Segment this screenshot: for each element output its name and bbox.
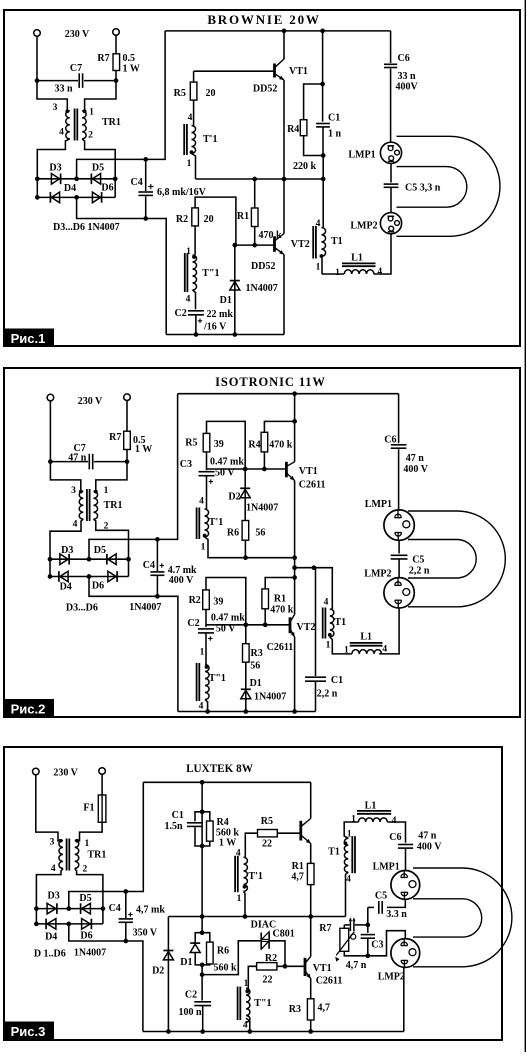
svg-text:R7: R7 — [319, 923, 331, 934]
wire T1 pin 1 to L1 schematic 3 — [344, 822, 358, 838]
svg-text:C2611: C2611 — [299, 480, 326, 491]
svg-text:220 k: 220 k — [293, 161, 317, 172]
junction nodes of bridge schematic 2 — [48, 557, 53, 562]
wire T1 pin 4 lead schematic 3 — [346, 872, 349, 874]
svg-text:4: 4 — [51, 864, 56, 874]
figure label Рис.2 — [3, 699, 54, 718]
svg-text:TR1: TR1 — [88, 850, 107, 861]
svg-text:1 n: 1 n — [328, 129, 342, 140]
lamp LMP1 schematic 2 — [384, 510, 414, 540]
svg-text:R4: R4 — [248, 439, 260, 450]
svg-text:D3...D6 1N4007: D3...D6 1N4007 — [53, 222, 120, 233]
wire R2 left to T''1 schematic 3 — [248, 966, 256, 988]
wire R5 bottom to C3 schematic 2 — [206, 452, 208, 470]
wire VT2 emitter down — [283, 255, 285, 335]
terminal right schematic 3 — [99, 768, 106, 775]
capacitor C3 schematic 3 — [367, 925, 369, 933]
wire horizontal with C7 — [37, 80, 78, 82]
svg-text:1N4007: 1N4007 — [246, 283, 278, 294]
lamp LMP2 schematic 3 — [391, 939, 420, 968]
capacitor C3 schematic 2 — [199, 471, 215, 473]
svg-text:C2611: C2611 — [267, 642, 294, 653]
wire bridge minus bus schematic 2 — [89, 577, 178, 712]
wire LMP2 to L1 — [374, 234, 391, 274]
wire to TR1 pin 1 — [85, 81, 116, 112]
wire TR1 pin 2 to bridge — [82, 139, 115, 179]
svg-text:D4: D4 — [60, 582, 72, 593]
diode D2 schematic 3 — [167, 917, 169, 1032]
wire branch to R4 schematic 2 — [264, 421, 294, 432]
wire bridge plus to rail riser — [77, 31, 166, 179]
svg-text:L1: L1 — [365, 801, 377, 812]
svg-text:D3: D3 — [47, 891, 59, 902]
capacitor C4 — [145, 159, 147, 191]
svg-text:2: 2 — [83, 865, 88, 875]
wire emitter to R1 schematic 3 — [310, 844, 312, 864]
figure label Рис.1 — [3, 329, 54, 348]
variable resistor R7 schematic 3 — [340, 928, 349, 951]
svg-text:0.47 mk: 0.47 mk — [211, 613, 245, 624]
transistor VT2 — [273, 236, 276, 252]
svg-text:T1: T1 — [331, 236, 343, 247]
transistor VT1 — [273, 64, 276, 78]
svg-text:VT1: VT1 — [289, 66, 308, 77]
svg-text:C6: C6 — [389, 832, 401, 843]
junction nodes of bridge schematic 3 — [34, 906, 39, 911]
wire right terminal to R7 — [115, 35, 117, 54]
inductor L1 schematic 3 — [359, 818, 388, 822]
svg-text:4,7: 4,7 — [318, 1003, 331, 1014]
svg-text:Рис.1: Рис.1 — [11, 331, 46, 346]
svg-text:3: 3 — [50, 838, 55, 848]
node left of C7 row — [35, 78, 40, 83]
lamp LMP1 — [380, 142, 401, 163]
svg-text:1: 1 — [200, 648, 205, 658]
capacitor C5 schematic 3 — [378, 901, 380, 914]
wire LMP1 to C5 schematic 3 — [387, 899, 405, 907]
wire VT1 emitter down — [283, 80, 285, 179]
svg-text:R6: R6 — [217, 946, 229, 957]
capacitor C1 schematic 3 — [195, 812, 202, 821]
resistor R2 — [192, 208, 199, 226]
wire to TR1 pin 3 — [37, 81, 67, 112]
wire R2 to T''1 pin 1 — [194, 226, 196, 255]
resistor R4 — [300, 120, 307, 136]
lamp LMP2 schematic 2 — [384, 578, 414, 608]
wire R7 down schematic 2 — [126, 450, 128, 462]
svg-text:C4: C4 — [109, 903, 121, 914]
resistor R1 — [254, 179, 256, 208]
inductor L1 — [344, 270, 374, 274]
terminal right — [113, 29, 120, 36]
wire R4 bottom to C1 bottom — [304, 136, 324, 156]
svg-text:C4: C4 — [143, 560, 155, 571]
svg-text:4: 4 — [199, 702, 204, 712]
svg-text:47 n: 47 n — [406, 453, 425, 464]
wire left supply vertical schematic 3 — [201, 782, 203, 916]
bridge right rail wire schematic 3 — [102, 909, 104, 924]
wire TR1 pin 4 to bridge — [37, 139, 70, 179]
svg-text:ISOTRONIC 11W: ISOTRONIC 11W — [215, 375, 326, 389]
bridge bottom branch wire schematic 2 — [50, 576, 129, 578]
wire R2 top loop schematic 2 — [206, 578, 246, 625]
wire VT2 base — [235, 244, 275, 246]
bridge bottom branch wire schematic 3 — [36, 923, 103, 925]
bridge top branch wire schematic 2 — [50, 558, 129, 560]
transformer T1 — [322, 179, 324, 227]
svg-text:230 V: 230 V — [78, 396, 103, 407]
base wire VT2 schematic 2 — [206, 624, 290, 626]
wire C3 junction to LMP2 schematic 3 — [368, 931, 406, 956]
svg-text:4: 4 — [188, 113, 193, 123]
capacitor C2 schematic 2 — [198, 628, 214, 630]
fuse F1 — [98, 795, 106, 822]
svg-text:C5 3,3 n: C5 3,3 n — [405, 183, 441, 194]
lamp tube inner arc — [397, 167, 467, 208]
svg-text:TR1: TR1 — [104, 500, 123, 511]
wire C1 top riser — [322, 31, 324, 122]
wire L1 to C6 schematic 3 — [387, 822, 405, 843]
resistor R2 schematic 3 — [257, 963, 277, 970]
svg-text:LMP2: LMP2 — [350, 221, 377, 232]
wire T1 pin 1 to L1 schematic 2 — [330, 637, 352, 654]
bottom bus wire — [166, 334, 284, 336]
svg-text:33 n: 33 n — [54, 84, 73, 95]
svg-text:1 W: 1 W — [123, 64, 140, 75]
capacitor C2 schematic 3 — [194, 1001, 211, 1003]
svg-text:R2: R2 — [265, 953, 277, 964]
wire R1 top loop schematic 2 — [265, 578, 294, 589]
svg-text:50 V: 50 V — [215, 468, 235, 479]
bridge left rail wire schematic 2 — [49, 559, 51, 576]
frame of schematic 3 — [4, 747, 502, 1040]
svg-text:D5: D5 — [92, 163, 104, 174]
resistor R4 schematic 3 — [202, 812, 210, 821]
svg-text:LMP1: LMP1 — [365, 499, 392, 510]
wire to C2 schematic 3 — [201, 965, 203, 1001]
wire C5 to junction schematic 3 — [367, 907, 369, 925]
svg-text:D5: D5 — [94, 545, 106, 556]
svg-text:T'1: T'1 — [209, 517, 223, 528]
wire R5 top loop schematic 2 — [207, 421, 246, 469]
lamp LMP1 schematic 3 — [391, 871, 420, 900]
frame of schematic 2 — [4, 368, 520, 717]
wire LMP2 to bottom rail schematic 3 — [403, 967, 405, 1031]
svg-text:C7: C7 — [70, 63, 82, 74]
diode D3 schematic 2 — [60, 554, 68, 565]
svg-text:350 V: 350 V — [133, 928, 158, 939]
svg-text:D2: D2 — [152, 966, 164, 977]
svg-text:LMP1: LMP1 — [373, 862, 400, 873]
svg-text:R2: R2 — [189, 595, 201, 606]
capacitor C6 schematic 2 — [398, 394, 400, 443]
svg-text:1: 1 — [237, 894, 242, 904]
svg-text:T"1: T"1 — [202, 268, 219, 279]
diode D5 — [92, 174, 100, 185]
svg-text:470 k: 470 k — [270, 605, 294, 616]
wire LMP1 to C5 schematic 2 — [398, 541, 400, 554]
svg-text:C1: C1 — [328, 113, 340, 124]
svg-text:D2: D2 — [228, 492, 240, 503]
svg-text:1 W: 1 W — [219, 838, 236, 849]
svg-text:22 mk: 22 mk — [207, 309, 234, 320]
wire T''1 pin 4 to bottom bus schematic 2 — [205, 700, 208, 712]
svg-text:1: 1 — [85, 839, 90, 849]
svg-text:R3: R3 — [289, 1004, 301, 1015]
svg-text:R1: R1 — [274, 594, 286, 605]
diode D4 schematic 2 — [60, 571, 68, 582]
wire R1 to bus and VT1 collector schematic 3 — [310, 885, 312, 957]
svg-text:C801: C801 — [273, 929, 295, 940]
svg-text:C2: C2 — [174, 308, 186, 319]
svg-text:R6: R6 — [227, 528, 239, 539]
diode D5 schematic 3 — [82, 903, 91, 914]
transistor VT1 schematic 2 — [285, 462, 288, 478]
lamp tube inner arc schematic 2 — [408, 540, 476, 579]
svg-text:0.5: 0.5 — [123, 53, 136, 64]
svg-text:4: 4 — [377, 267, 382, 277]
svg-text:50 V: 50 V — [216, 624, 236, 635]
svg-text:4: 4 — [186, 295, 191, 305]
svg-text:400 V: 400 V — [403, 464, 428, 475]
svg-text:1: 1 — [326, 641, 331, 651]
capacitor C6 — [390, 31, 392, 63]
svg-text:R5: R5 — [185, 438, 197, 449]
svg-text:230 V: 230 V — [53, 768, 78, 779]
svg-text:560 k: 560 k — [214, 963, 238, 974]
capacitor C4 schematic 3 — [125, 892, 127, 919]
capacitor C7 schematic 2 — [88, 454, 90, 470]
svg-text:1: 1 — [335, 268, 340, 278]
wire bridge plus to rail riser schematic 3 — [69, 782, 144, 908]
wire branch to R4 — [304, 84, 323, 120]
wire TR1 pin 4 to bridge schematic 2 — [50, 519, 83, 559]
wire left terminal down schematic 3 — [36, 775, 61, 841]
svg-text:VT1: VT1 — [313, 963, 332, 974]
resistor R7 schematic 2 — [124, 431, 131, 449]
svg-text:D3...D6: D3...D6 — [66, 603, 98, 614]
svg-text:4: 4 — [346, 875, 351, 885]
svg-text:LMP2: LMP2 — [378, 972, 405, 983]
svg-text:4: 4 — [59, 128, 64, 138]
wire L1 to T1 pin 1 — [322, 273, 344, 275]
main bus wire schematic 3 — [168, 916, 345, 918]
svg-text:1: 1 — [244, 979, 249, 989]
diode D4 schematic 3 — [47, 919, 56, 930]
resistor R1 schematic 2 — [262, 589, 269, 609]
svg-text:F1: F1 — [83, 803, 94, 814]
svg-text:C5: C5 — [412, 555, 424, 566]
wire VT2 emitter to bottom bus schematic 2 — [294, 637, 296, 712]
svg-text:R4: R4 — [217, 817, 229, 828]
svg-text:Рис.2: Рис.2 — [11, 702, 46, 717]
capacitor C2 — [188, 310, 204, 312]
mid bus wire — [196, 178, 324, 180]
svg-text:C5: C5 — [375, 891, 387, 902]
svg-text:C2: C2 — [185, 990, 197, 1001]
wire collector to rail schematic 3 — [310, 782, 312, 818]
lamp tube outer arc schematic 2 — [408, 511, 505, 607]
wire R5 left to T'1 schematic 3 — [245, 833, 257, 857]
resistor R3 schematic 3 — [307, 999, 314, 1020]
svg-text:4,7: 4,7 — [291, 872, 304, 883]
top rail wire schematic 2 — [178, 393, 399, 395]
svg-text:1: 1 — [201, 543, 206, 553]
svg-text:33 n: 33 n — [398, 71, 417, 82]
node left of C7 row schematic 2 — [48, 459, 53, 464]
svg-text:1N4007: 1N4007 — [246, 503, 278, 514]
wire LMP1 to C5 — [390, 163, 392, 182]
bridge left rail wire schematic 3 — [35, 909, 37, 924]
wire DIAC branch schematic 3 — [202, 941, 260, 975]
svg-text:22: 22 — [262, 839, 272, 850]
capacitor C4 schematic 2 — [156, 539, 158, 571]
svg-text:R4: R4 — [287, 124, 299, 135]
svg-text:4: 4 — [199, 497, 204, 507]
wire R5 right to transistor base schematic 3 — [277, 832, 301, 834]
svg-text:1N4007: 1N4007 — [129, 602, 161, 613]
diode D1 — [234, 245, 236, 334]
wire T''1 pin 4 to bottom rail schematic 3 — [246, 1018, 250, 1031]
svg-text:1.5n: 1.5n — [164, 821, 183, 832]
lamp tube inner arc schematic 3 — [413, 899, 482, 937]
resistor R7 — [113, 54, 120, 71]
wire horizontal with C7 schematic 2 — [50, 461, 88, 463]
resistor R1 schematic 3 — [307, 863, 314, 884]
svg-text:400 V: 400 V — [417, 842, 442, 853]
top rail wire schematic 3 — [143, 781, 310, 783]
diode D4 — [51, 192, 59, 203]
transformer TR1 — [65, 109, 69, 113]
wire R2 bottom to C2 schematic 2 — [205, 610, 207, 628]
resistor R6 schematic 2 — [242, 521, 249, 541]
svg-text:20: 20 — [206, 88, 216, 99]
svg-text:C2: C2 — [187, 618, 199, 629]
svg-text:R7: R7 — [109, 432, 121, 443]
svg-text:TR1: TR1 — [102, 117, 121, 128]
wire R7 down — [115, 71, 117, 81]
svg-text:T'1: T'1 — [203, 134, 217, 145]
svg-text:LMP2: LMP2 — [364, 569, 391, 580]
svg-text:D 1..D6: D 1..D6 — [34, 949, 66, 960]
svg-text:R7: R7 — [97, 53, 109, 64]
bridge top branch wire schematic 3 — [36, 908, 103, 910]
svg-text:R5: R5 — [174, 88, 186, 99]
diode D3 schematic 3 — [47, 903, 56, 914]
diode D3 — [51, 174, 59, 185]
svg-text:47 n: 47 n — [68, 453, 87, 464]
base wire VT1 schematic 2 — [207, 468, 287, 470]
frame of schematic 1 — [4, 10, 520, 346]
svg-text:C3: C3 — [371, 940, 383, 951]
svg-text:DD52: DD52 — [251, 261, 275, 272]
node right of C7 row schematic 2 — [125, 459, 130, 464]
wire left terminal down — [36, 36, 38, 80]
transistor Q upper schematic 3 — [299, 821, 302, 841]
node right of C7 row — [114, 78, 119, 83]
transformer T1 schematic 3 — [344, 838, 348, 872]
capacitor C1 — [316, 123, 330, 125]
svg-text:47 n: 47 n — [418, 831, 437, 842]
wire T1 drive bus schematic 2 — [295, 568, 333, 609]
svg-text:C1: C1 — [331, 675, 343, 686]
svg-text:C4: C4 — [130, 177, 142, 188]
wire VT1 emitter to R3 schematic 3 — [310, 979, 312, 999]
svg-text:39: 39 — [214, 439, 224, 450]
parallel D1 R6 pair schematic 3 — [201, 917, 203, 933]
svg-text:4: 4 — [324, 598, 329, 608]
svg-text:BROWNIE 20W: BROWNIE 20W — [207, 12, 320, 27]
diode D5 schematic 2 — [108, 554, 116, 565]
wire right terminal to F1 schematic 3 — [101, 774, 103, 795]
svg-text:2,2 n: 2,2 n — [409, 566, 430, 577]
wire T'1 pin 1 to mid bus — [192, 154, 196, 180]
wire T1 pin 1 down — [320, 256, 323, 274]
wire DIAC to base schematic 3 — [269, 941, 285, 967]
wire left terminal down schematic 2 — [49, 401, 51, 462]
svg-text:1 W: 1 W — [135, 444, 152, 455]
svg-text:R5: R5 — [261, 816, 273, 827]
svg-text:0.47 mk: 0.47 mk — [210, 457, 244, 468]
svg-text:D5: D5 — [79, 893, 91, 904]
wire R7 bottom schematic 3 — [344, 951, 368, 956]
svg-text:LUXTEK 8W: LUXTEK 8W — [186, 763, 254, 775]
svg-text:1: 1 — [344, 646, 349, 656]
svg-text:L1: L1 — [360, 632, 372, 643]
wire F1 to TR1 pin 1 schematic 3 — [77, 822, 102, 841]
transistor VT1 schematic 3 — [304, 958, 307, 976]
transformer TR1 schematic 3 — [59, 839, 63, 843]
bridge bottom branch wire — [37, 196, 115, 198]
wire to TR1 pin 3 schematic 2 — [50, 462, 80, 492]
capacitor C5 schematic 2 — [391, 554, 408, 556]
svg-text:D1: D1 — [220, 295, 232, 306]
svg-text:R1: R1 — [237, 211, 249, 222]
lamp LMP2 — [380, 213, 401, 234]
svg-text:56: 56 — [255, 528, 265, 539]
DIAC C801 — [260, 933, 262, 949]
svg-text:1: 1 — [351, 815, 356, 825]
svg-text:1N4007: 1N4007 — [254, 692, 286, 703]
inductor L1 schematic 2 — [352, 650, 382, 654]
lamp tube outer arc schematic 3 — [413, 868, 512, 967]
spark gap arrows symbol — [349, 919, 351, 932]
svg-text:VT2: VT2 — [291, 239, 310, 250]
svg-text:4,7 n: 4,7 n — [346, 960, 367, 971]
resistor R4 schematic 2 — [261, 432, 268, 452]
svg-text:C6: C6 — [398, 53, 410, 64]
bridge right rail wire — [114, 179, 116, 198]
svg-text:T1: T1 — [335, 617, 347, 628]
terminal left schematic 2 — [47, 394, 54, 401]
svg-text:470 k: 470 k — [269, 439, 293, 450]
wire R5 to T'1 pin 4 — [193, 100, 195, 125]
svg-text:DD52: DD52 — [253, 84, 277, 95]
svg-text:3: 3 — [71, 486, 76, 496]
svg-text:D3: D3 — [61, 545, 73, 556]
wire TR1 pin 2 to bridge schematic 2 — [94, 519, 129, 576]
svg-text:4: 4 — [73, 520, 78, 530]
wire R5 top to VT1 base — [193, 71, 195, 82]
diode D6 schematic 3 — [82, 919, 91, 930]
svg-text:4: 4 — [243, 1021, 248, 1031]
svg-text:3.3 n: 3.3 n — [386, 909, 407, 920]
terminal left — [34, 30, 41, 37]
terminal right schematic 2 — [124, 394, 131, 401]
bottom rail wire schematic 3 — [143, 1031, 404, 1033]
wire VT1 emitter down schematic 2 — [294, 481, 296, 615]
resistor R5 schematic 3 — [258, 830, 278, 837]
